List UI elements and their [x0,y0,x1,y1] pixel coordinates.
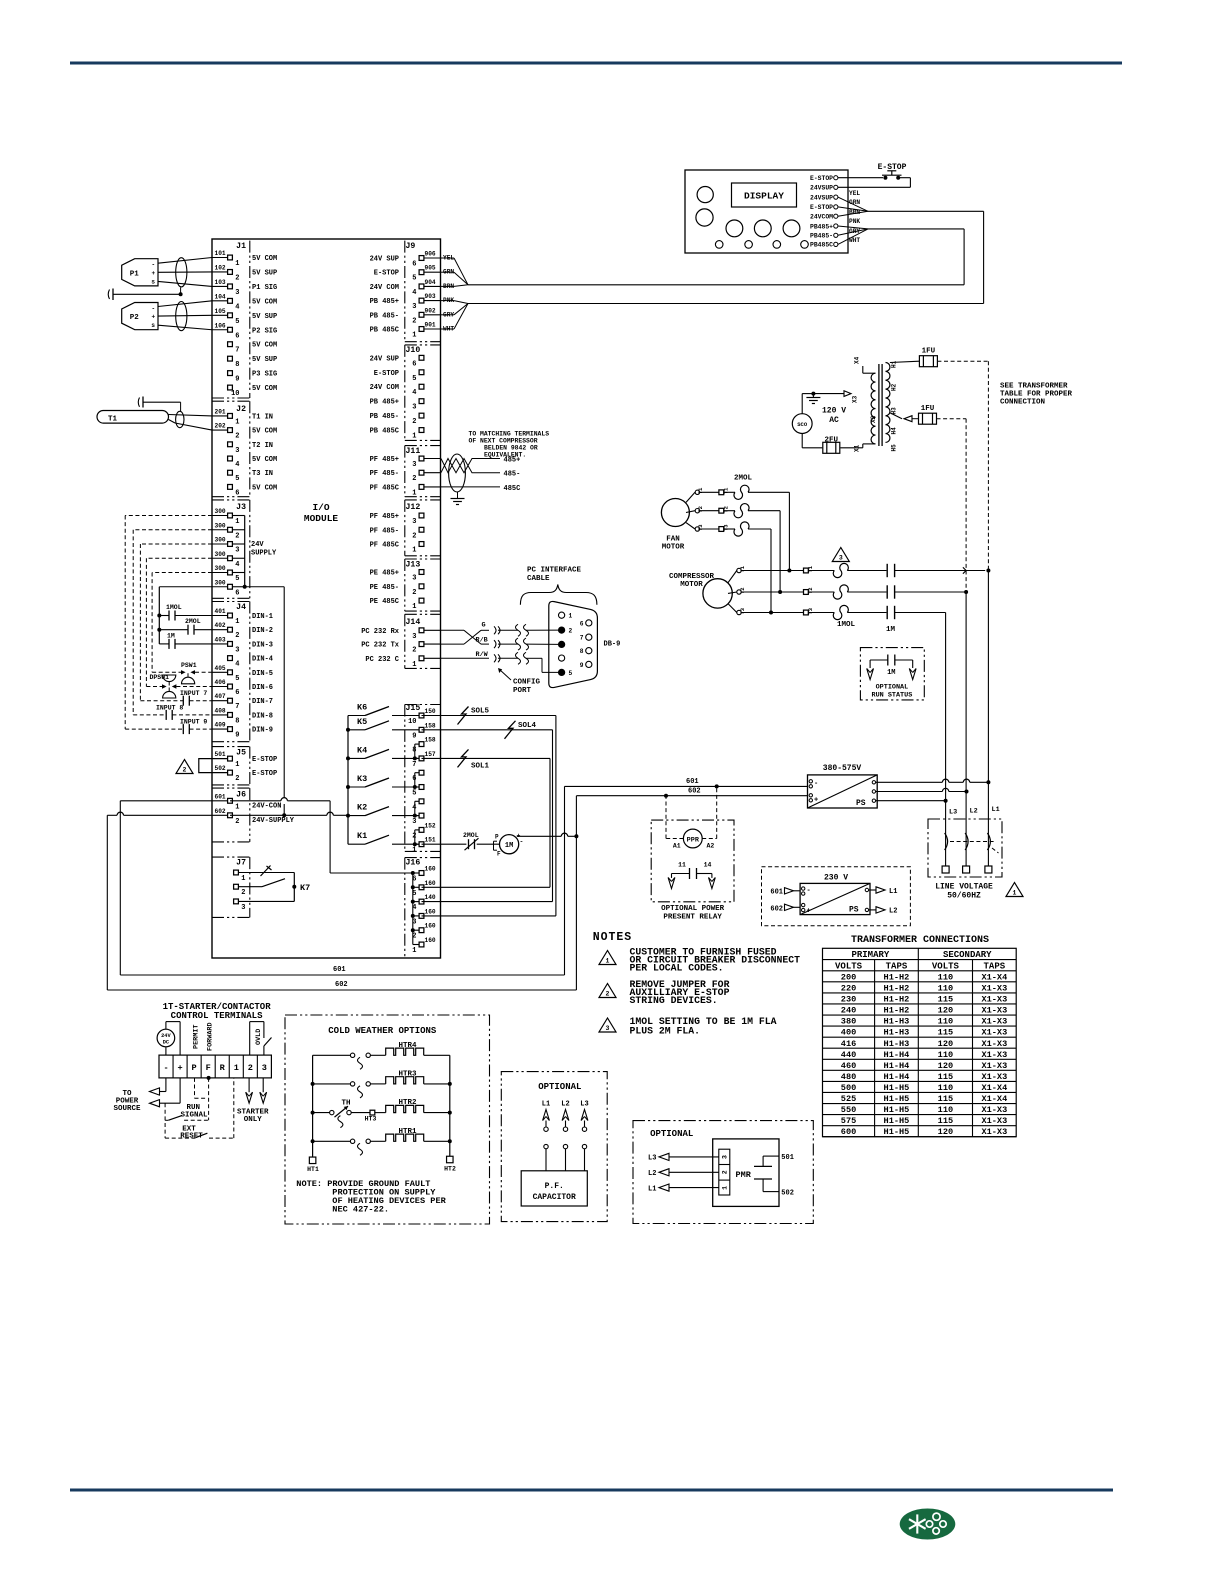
svg-text:COMPRESSOR: COMPRESSOR [669,573,715,581]
svg-text:158: 158 [425,722,436,729]
solenoid SOL1 wire from J15-7 [422,757,551,759]
svg-text:6: 6 [235,589,239,597]
J6 pin 2 [212,814,230,816]
svg-text:158: 158 [425,737,436,744]
svg-text:2: 2 [606,991,610,998]
J15 pin 6 [419,770,424,775]
svg-text:CONFIG: CONFIG [513,679,541,687]
J11 pin 3 [422,458,441,460]
DB-9 connector body [549,601,598,687]
J1 pin 7 [228,342,233,347]
svg-text:PS: PS [849,906,859,915]
J3 pin 3 [212,543,230,545]
svg-text:DIN-2: DIN-2 [252,627,273,635]
svg-text:EQUIVALENT.: EQUIVALENT. [484,452,526,459]
svg-text:601: 601 [770,888,783,896]
svg-text:460: 460 [841,1061,856,1071]
J15 pin 1 [419,842,424,847]
svg-text:602: 602 [335,981,348,989]
J10 pin 5 [419,370,424,375]
svg-text:5V COM: 5V COM [252,428,277,436]
svg-text:9: 9 [235,732,239,740]
svg-text:2: 2 [412,317,416,325]
J7 pin 2 [234,884,239,889]
starter only leads [248,1078,250,1092]
svg-text:K1: K1 [357,831,367,841]
svg-text:DIN-9: DIN-9 [252,727,273,735]
svg-text:L2: L2 [889,908,897,916]
J1 pin 8 [228,356,233,361]
J11 cable shield [449,454,466,492]
svg-text:7: 7 [580,635,584,642]
svg-text:H1-H3: H1-H3 [884,1017,910,1027]
svg-text:115: 115 [938,1028,953,1038]
svg-text:2: 2 [235,818,239,826]
svg-text:601: 601 [333,966,346,974]
svg-text:1: 1 [412,433,416,441]
DB-9 pin 1 [559,612,565,618]
I/O module outline [212,239,441,958]
svg-text:1M: 1M [887,669,895,677]
DB-9 pin 2 [559,627,565,633]
DB-9 pin 4 [559,655,565,661]
transformer primary winding H1-H5 [886,363,890,443]
svg-text:550: 550 [841,1105,856,1115]
svg-text:1: 1 [235,418,239,426]
svg-text:L1: L1 [648,1185,656,1193]
J2 pin 6 [228,485,233,490]
svg-text:SECONDARY: SECONDARY [943,950,992,960]
svg-text:J5: J5 [236,749,246,758]
svg-text:5V COM: 5V COM [252,255,277,263]
svg-text:T1 IN: T1 IN [252,413,273,421]
svg-text:CONTROL TERMINALS: CONTROL TERMINALS [171,1011,263,1021]
svg-text:-: - [807,887,811,895]
svg-text:PE 485+: PE 485+ [370,570,399,578]
P1 cable shield [176,258,187,287]
J12 pin 1 [419,542,424,547]
svg-text:R/W: R/W [476,651,489,659]
svg-text:1: 1 [235,618,239,626]
svg-text:X1-X3: X1-X3 [981,1039,1007,1049]
svg-text:1: 1 [412,332,416,340]
display window [732,183,797,207]
wire 601 run to power supply [565,785,808,787]
svg-text:PC 232 C: PC 232 C [365,656,399,664]
J5 jumper wire [199,759,228,773]
svg-text:905: 905 [425,265,436,272]
relay contact K1 [348,843,365,845]
svg-text:3: 3 [412,461,416,469]
svg-text:24V SUP: 24V SUP [370,256,399,264]
svg-text:3: 3 [262,1063,267,1073]
svg-text:PB485C: PB485C [810,242,833,249]
svg-text:L3: L3 [648,1155,656,1163]
fan motor feed drops [788,492,790,570]
svg-text:2: 2 [412,647,416,655]
terminal HT2 [447,1156,454,1163]
svg-text:101: 101 [215,250,226,257]
svg-text:L3: L3 [949,809,957,817]
svg-text:FAN: FAN [666,536,680,544]
optional PMR box [633,1121,813,1224]
connector J14 boundary [405,613,441,615]
J13 pin 3 [419,570,424,575]
J3 24V supply bracket [232,515,244,517]
svg-text:T2: T2 [697,506,704,513]
svg-text:4: 4 [235,561,239,569]
svg-text:H1-H5: H1-H5 [884,1105,910,1115]
svg-text:X3: X3 [852,395,859,403]
J9 pin 3 [422,300,441,302]
svg-text:10: 10 [408,718,416,726]
T1 cable shield [176,411,184,427]
svg-text:500: 500 [841,1083,856,1093]
svg-text:VOLTS: VOLTS [835,961,863,971]
svg-text:PB485-: PB485- [810,233,833,240]
connector J3 boundary [212,499,250,501]
svg-text:BELDEN 9842 OR: BELDEN 9842 OR [484,445,538,452]
J5 pin 1 [228,756,233,761]
svg-text:T1: T1 [807,565,814,572]
svg-text:AC: AC [829,416,839,425]
svg-text:H1-H5: H1-H5 [884,1127,910,1137]
fan motor lead T2 [686,511,695,513]
svg-text:L1: L1 [992,806,1000,814]
display led 1 [715,241,723,249]
svg-text:-: - [152,262,156,269]
svg-text:5V SUP: 5V SUP [252,269,277,277]
svg-text:H1-H5: H1-H5 [884,1083,910,1093]
wire 601 from J6-1 [120,800,212,802]
svg-text:160: 160 [425,880,436,887]
J4 pin 9 [212,728,230,730]
J9 pin 4 [422,285,441,287]
J16 pin 3 [419,914,424,919]
svg-text:403: 403 [215,636,226,643]
compressor motor lead T1 [728,571,737,583]
svg-text:416: 416 [841,1039,856,1049]
svg-text:5: 5 [235,475,239,483]
svg-text:24VCOM: 24VCOM [810,214,833,221]
J2 pin 3 [228,442,233,447]
svg-text:X1-X4: X1-X4 [981,1094,1007,1104]
J16 common bus [412,873,414,945]
svg-text:8: 8 [235,717,239,725]
svg-text:2FU: 2FU [825,437,839,445]
svg-text:485-: 485- [504,471,521,479]
tap H3 to fuse 1FU [890,413,902,419]
svg-text:MOTOR: MOTOR [662,544,685,552]
svg-text:OF NEXT COMPRESSOR: OF NEXT COMPRESSOR [469,438,538,445]
svg-text:202: 202 [215,423,226,430]
svg-text:COLD WEATHER OPTIONS: COLD WEATHER OPTIONS [328,1026,437,1036]
svg-text:7: 7 [412,761,416,769]
24V-CON wire J6-1 to J16-6 [230,800,281,802]
1M coil return wire [517,835,562,837]
svg-text:A1: A1 [673,843,681,850]
svg-text:1FU: 1FU [922,348,936,356]
svg-text:TO MATCHING TERMINALS: TO MATCHING TERMINALS [469,431,550,438]
svg-text:PORT: PORT [513,687,532,695]
svg-text:H1-H2: H1-H2 [884,983,910,993]
page top rule [70,62,1122,65]
svg-text:K4: K4 [357,745,367,755]
differential pressure switch DPSW1 (DIN-6) [146,686,162,688]
power supply PS 380-575V [808,775,878,808]
pressure transducer P2 [122,303,158,330]
svg-text:1M: 1M [505,842,513,850]
svg-text:P.F.: P.F. [545,1182,564,1191]
svg-text:300: 300 [215,522,226,529]
J1 pin 1 [212,257,230,259]
svg-text:L1: L1 [889,888,897,896]
svg-text:24V-CON: 24V-CON [252,802,281,810]
note triangle 1 [599,951,616,965]
svg-text:1MOL: 1MOL [837,621,856,629]
svg-text:PC 232 Tx: PC 232 Tx [361,642,400,650]
J12 pin 3 [419,513,424,518]
24V-SUPPLY wire J6-2 to K bus [230,814,327,816]
solenoid SOL4 wire from J15-9 [422,729,553,731]
display button 2 [754,220,771,237]
svg-text:DPSW1: DPSW1 [150,674,170,681]
power supply PS 230V [800,883,870,914]
svg-text:6: 6 [235,689,239,697]
J3 pin 4 [212,557,230,559]
J2 pin 2 [212,429,230,431]
PPR dashed coil feeds [666,838,683,840]
svg-text:2: 2 [722,1170,729,1174]
svg-text:501: 501 [781,1154,794,1162]
svg-text:1MOL: 1MOL [166,604,182,611]
svg-text:230: 230 [841,995,856,1005]
svg-text:1: 1 [241,875,245,883]
svg-text:501: 501 [215,751,226,758]
svg-text:T2: T2 [739,587,746,594]
svg-text:8: 8 [235,361,239,369]
note triangle 3 [599,1018,616,1032]
svg-text:115: 115 [938,1072,953,1082]
display knob 1 [697,187,713,203]
svg-text:PB 485-: PB 485- [370,413,399,421]
svg-text:1: 1 [606,958,610,965]
svg-text:157: 157 [425,751,436,758]
svg-text:INPUT 7: INPUT 7 [180,690,207,697]
thermostat TH on HTR2 row [313,1112,330,1114]
svg-text:2: 2 [235,775,239,783]
svg-text:5V COM: 5V COM [252,456,277,464]
J15 pin 3 [419,813,424,818]
svg-text:906: 906 [425,251,436,258]
svg-text:+: + [807,908,811,916]
relay contact K4 [348,757,365,759]
svg-text:R/B: R/B [476,637,488,645]
J2 pin 5 [228,470,233,475]
svg-text:T1: T1 [108,416,118,424]
svg-text:120 V: 120 V [822,407,846,416]
J1 pin 9 [228,371,233,376]
svg-text:903: 903 [425,293,436,300]
svg-text:160: 160 [425,866,436,873]
J15 pin 10 [419,713,424,718]
svg-text:T1: T1 [723,487,730,494]
company logo [900,1509,956,1540]
svg-text:24V COM: 24V COM [370,284,399,292]
J15 pin pair jumpers [415,743,419,745]
tap H1 to fuse 1FU [890,361,920,362]
J11 twisted pair to next compressor [441,459,500,473]
J10 pin 1 [419,428,424,433]
heater left bus HT1 [312,1055,314,1157]
svg-text:RUN STATUS: RUN STATUS [872,692,913,700]
note triangle 2 [599,984,616,998]
display cable fan [838,197,868,211]
DB-9 pin 9 [586,661,592,667]
svg-text:MOTOR: MOTOR [680,581,703,589]
svg-text:J16: J16 [406,859,421,868]
svg-text:S: S [152,278,156,285]
compressor motor lead T2 [728,592,737,593]
svg-text:3: 3 [722,1155,729,1159]
svg-text:440: 440 [841,1050,856,1060]
svg-text:-: - [520,839,524,846]
svg-text:105: 105 [215,308,226,315]
J1 pin 2 [212,271,230,273]
J1 pin 10 [228,385,233,390]
J16 pin 1 [419,942,424,947]
display knob 2 [696,209,713,226]
svg-text:T3: T3 [723,524,730,531]
svg-text:J2: J2 [236,405,246,414]
svg-text:502: 502 [215,765,226,772]
svg-text:J15: J15 [406,704,421,713]
svg-text:PC 232 Rx: PC 232 Rx [361,628,400,636]
K relay contact bus [347,716,349,845]
svg-text:H1-H4: H1-H4 [884,1072,910,1082]
svg-text:PLUS 2M FLA.: PLUS 2M FLA. [630,1026,701,1037]
svg-text:120: 120 [938,1039,953,1049]
motor contactor coil 1M [477,843,500,845]
wires to power source [165,1078,167,1092]
svg-text:1: 1 [412,603,416,611]
P1 wires to J1 pins 1-3 [158,258,212,264]
svg-text:H5: H5 [891,444,898,452]
svg-text:BRN: BRN [849,209,860,216]
svg-text:3: 3 [235,289,239,297]
svg-text:602: 602 [770,905,783,913]
svg-text:HT1: HT1 [307,1166,319,1173]
svg-text:X2: X2 [870,415,877,423]
svg-text:2MOL: 2MOL [185,618,201,625]
svg-text:3: 3 [606,1025,610,1032]
svg-text:J9: J9 [406,242,416,251]
svg-text:-: - [814,780,818,788]
H3 dashed feed to line L2 [937,418,967,420]
svg-text:DIN-6: DIN-6 [252,684,273,692]
svg-text:DIN-4: DIN-4 [252,656,273,664]
svg-text:YEL: YEL [849,190,860,197]
svg-text:480: 480 [841,1072,856,1082]
tap X3 with arrow [844,391,851,397]
PMR output contact 501/502 [762,1156,764,1166]
svg-text:2: 2 [412,589,416,597]
svg-text:DIN-7: DIN-7 [252,698,273,706]
svg-text:2MOL: 2MOL [734,475,753,483]
J15 pin 9 [419,727,424,732]
svg-text:L2: L2 [970,808,978,816]
J3 dashed return bus [125,515,212,517]
relay contact K2 [348,815,365,817]
svg-text:H1-H3: H1-H3 [884,1039,910,1049]
svg-text:X1-X3: X1-X3 [981,1072,1007,1082]
svg-text:1: 1 [235,518,239,526]
svg-text:1FU: 1FU [921,405,935,413]
svg-text:T1: T1 [739,565,746,572]
svg-text:E-STOP: E-STOP [810,175,833,182]
P2 cable shield [176,302,187,331]
svg-text:DIN-5: DIN-5 [252,670,273,678]
svg-text:X1-X3: X1-X3 [981,1028,1007,1038]
svg-text:11: 11 [678,862,686,869]
svg-text:575: 575 [841,1116,856,1126]
display led 4 [801,241,809,249]
svg-text:5V COM: 5V COM [252,342,277,350]
svg-text:2MOL: 2MOL [463,832,479,839]
svg-text:24VSUP: 24VSUP [810,185,833,192]
svg-text:110: 110 [938,1050,953,1060]
PMR relay box [713,1139,779,1207]
svg-text:PSW1: PSW1 [181,662,197,669]
brace [520,585,597,605]
wire 602 run to power supply [576,795,807,797]
J1 pin 6 [212,329,230,331]
J15 pin 2 [419,828,424,833]
svg-text:X4: X4 [854,356,861,364]
wire 602 from J6-2 [124,814,213,816]
svg-text:J3: J3 [236,503,246,512]
svg-text:5V SUP: 5V SUP [252,313,277,321]
svg-text:4: 4 [412,389,416,397]
svg-text:E-STOP: E-STOP [374,370,399,378]
svg-text:2: 2 [235,433,239,441]
svg-text:1: 1 [235,761,239,769]
PC 232 wires with cross [441,629,465,631]
svg-text:1M: 1M [886,626,896,634]
J14 pin 3 [422,629,441,631]
svg-text:H2: H2 [891,383,898,391]
J11 shield ground [457,492,459,499]
J15 pin 8 [419,742,424,747]
contact 2MOL (DIN-2) [157,628,161,632]
display button 3 [783,220,800,237]
svg-text:3: 3 [412,818,416,826]
svg-text:5V COM: 5V COM [252,298,277,306]
J14 pin 2 [422,643,441,645]
J12 pin 2 [419,527,424,532]
svg-text:1: 1 [234,1063,239,1073]
svg-text:1: 1 [412,489,416,497]
svg-text:904: 904 [425,279,436,286]
INPUT 7 contact (DIN-7) [140,700,183,702]
connector J4 boundary [212,601,250,603]
svg-text:X1-X3: X1-X3 [981,983,1007,993]
svg-text:K6: K6 [357,703,367,713]
solenoid SOL5 wire from J15-10 [422,715,556,717]
svg-text:CABLE: CABLE [527,575,550,583]
svg-text:DIN-1: DIN-1 [252,613,273,621]
svg-text:X1-X3: X1-X3 [981,1017,1007,1027]
